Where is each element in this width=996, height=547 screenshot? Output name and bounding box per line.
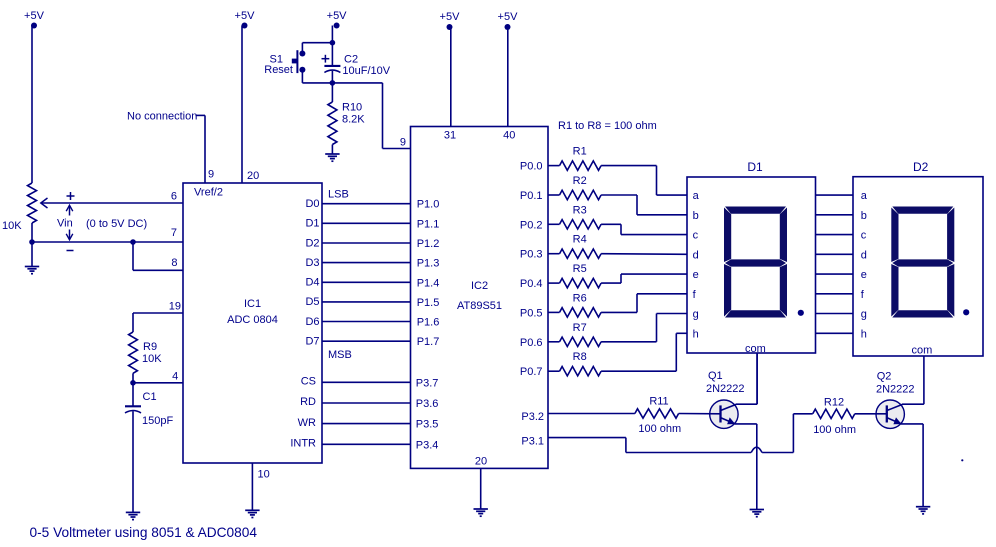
svg-text:Q2: Q2 bbox=[877, 371, 892, 383]
svg-text:Reset: Reset bbox=[264, 64, 293, 76]
svg-text:R7: R7 bbox=[573, 322, 587, 334]
svg-text:P0.2: P0.2 bbox=[520, 219, 543, 231]
svg-text:+5V: +5V bbox=[498, 11, 519, 23]
svg-text:+5V: +5V bbox=[327, 10, 348, 22]
svg-text:d: d bbox=[861, 249, 867, 261]
svg-text:c: c bbox=[693, 230, 699, 242]
svg-text:(0 to 5V DC): (0 to 5V DC) bbox=[86, 218, 147, 230]
svg-text:+5V: +5V bbox=[440, 11, 461, 23]
svg-text:P1.2: P1.2 bbox=[417, 238, 440, 250]
svg-text:D0: D0 bbox=[305, 198, 319, 210]
svg-text:P1.1: P1.1 bbox=[417, 218, 440, 230]
svg-text:2N2222: 2N2222 bbox=[706, 383, 745, 395]
svg-text:No connection: No connection bbox=[127, 110, 197, 122]
svg-text:R11: R11 bbox=[649, 395, 668, 407]
svg-text:R6: R6 bbox=[573, 292, 587, 304]
svg-text:com: com bbox=[745, 343, 766, 355]
svg-text:P3.4: P3.4 bbox=[416, 439, 439, 451]
svg-text:D1: D1 bbox=[305, 218, 319, 230]
svg-text:R1: R1 bbox=[573, 146, 587, 158]
svg-text:R10: R10 bbox=[342, 102, 362, 114]
svg-text:P0.1: P0.1 bbox=[520, 190, 543, 202]
svg-text:+5V: +5V bbox=[235, 10, 256, 22]
svg-text:10uF/10V: 10uF/10V bbox=[342, 65, 390, 77]
svg-text:150pF: 150pF bbox=[142, 415, 173, 427]
svg-text:WR: WR bbox=[298, 417, 316, 429]
svg-text:R9: R9 bbox=[143, 341, 157, 353]
svg-text:R3: R3 bbox=[573, 204, 587, 216]
svg-text:10K: 10K bbox=[2, 220, 22, 232]
svg-text:8: 8 bbox=[171, 257, 177, 269]
svg-text:D5: D5 bbox=[305, 296, 319, 308]
svg-text:C1: C1 bbox=[143, 391, 157, 403]
svg-text:d: d bbox=[693, 249, 699, 261]
svg-text:R5: R5 bbox=[573, 263, 587, 275]
svg-text:P3.6: P3.6 bbox=[416, 398, 439, 410]
svg-text:IC1: IC1 bbox=[244, 298, 261, 310]
svg-text:c: c bbox=[861, 230, 867, 242]
svg-text:D7: D7 bbox=[305, 336, 319, 348]
svg-text:P0.7: P0.7 bbox=[520, 366, 543, 378]
svg-text:19: 19 bbox=[169, 301, 181, 313]
svg-text:C2: C2 bbox=[344, 53, 358, 65]
svg-text:7: 7 bbox=[171, 227, 177, 239]
svg-text:P0.5: P0.5 bbox=[520, 307, 543, 319]
svg-text:MSB: MSB bbox=[328, 349, 352, 361]
svg-text:P3.1: P3.1 bbox=[521, 436, 544, 448]
svg-text:R4: R4 bbox=[573, 234, 587, 246]
svg-text:40: 40 bbox=[503, 130, 515, 142]
svg-text:P1.0: P1.0 bbox=[417, 199, 440, 211]
svg-text:P0.3: P0.3 bbox=[520, 249, 543, 261]
svg-text:D6: D6 bbox=[305, 316, 319, 328]
svg-text:P0.4: P0.4 bbox=[520, 278, 543, 290]
svg-text:b: b bbox=[861, 210, 867, 222]
svg-text:g: g bbox=[693, 309, 699, 321]
svg-text:10: 10 bbox=[258, 469, 270, 481]
svg-text:AT89S51: AT89S51 bbox=[457, 300, 502, 312]
svg-text:a: a bbox=[861, 190, 868, 202]
svg-text:RD: RD bbox=[300, 396, 316, 408]
svg-text:h: h bbox=[693, 328, 699, 340]
svg-text:CS: CS bbox=[301, 376, 316, 388]
svg-text:com: com bbox=[912, 345, 933, 357]
svg-text:P0.6: P0.6 bbox=[520, 337, 543, 349]
svg-text:P3.5: P3.5 bbox=[416, 419, 439, 431]
svg-text:8.2K: 8.2K bbox=[342, 114, 365, 126]
svg-text:R1 to R8 = 100 ohm: R1 to R8 = 100 ohm bbox=[558, 120, 657, 132]
svg-text:h: h bbox=[861, 328, 867, 340]
svg-text:20: 20 bbox=[475, 456, 487, 468]
svg-text:LSB: LSB bbox=[328, 189, 349, 201]
svg-text:Q1: Q1 bbox=[708, 370, 723, 382]
svg-text:10K: 10K bbox=[142, 353, 162, 365]
svg-text:P1.4: P1.4 bbox=[417, 277, 440, 289]
svg-text:9: 9 bbox=[400, 137, 406, 149]
svg-text:ADC 0804: ADC 0804 bbox=[227, 314, 278, 326]
svg-text:4: 4 bbox=[172, 370, 178, 382]
svg-text:D4: D4 bbox=[305, 277, 319, 289]
svg-text:P1.3: P1.3 bbox=[417, 258, 440, 270]
svg-text:b: b bbox=[693, 210, 699, 222]
svg-text:Vref/2: Vref/2 bbox=[194, 187, 223, 199]
svg-text:D1: D1 bbox=[747, 160, 763, 174]
svg-text:P3.7: P3.7 bbox=[416, 377, 439, 389]
svg-text:e: e bbox=[693, 269, 699, 281]
svg-text:100 ohm: 100 ohm bbox=[813, 424, 856, 436]
svg-text:INTR: INTR bbox=[290, 438, 316, 450]
svg-text:P1.6: P1.6 bbox=[417, 317, 440, 329]
svg-text:P1.7: P1.7 bbox=[417, 336, 440, 348]
svg-text:R2: R2 bbox=[573, 175, 587, 187]
svg-text:P0.0: P0.0 bbox=[520, 161, 543, 173]
svg-text:9: 9 bbox=[208, 169, 214, 181]
svg-text:R12: R12 bbox=[824, 397, 844, 409]
svg-text:20: 20 bbox=[247, 170, 259, 182]
svg-text:2N2222: 2N2222 bbox=[876, 384, 915, 396]
svg-text:D2: D2 bbox=[305, 237, 319, 249]
svg-text:100 ohm: 100 ohm bbox=[638, 423, 681, 435]
svg-text:R8: R8 bbox=[573, 351, 587, 363]
svg-text:a: a bbox=[693, 190, 700, 202]
svg-text:0-5 Voltmeter using 8051 & ADC: 0-5 Voltmeter using 8051 & ADC0804 bbox=[30, 525, 258, 540]
svg-text:e: e bbox=[861, 269, 867, 281]
svg-text:Vin: Vin bbox=[57, 218, 73, 230]
svg-text:P3.2: P3.2 bbox=[521, 411, 544, 423]
svg-text:g: g bbox=[861, 309, 867, 321]
svg-text:6: 6 bbox=[171, 191, 177, 203]
svg-text:IC2: IC2 bbox=[471, 280, 488, 292]
svg-text:31: 31 bbox=[444, 130, 456, 142]
svg-text:P1.5: P1.5 bbox=[417, 297, 440, 309]
svg-text:+5V: +5V bbox=[24, 10, 45, 22]
svg-text:D3: D3 bbox=[305, 257, 319, 269]
svg-text:D2: D2 bbox=[913, 160, 929, 174]
